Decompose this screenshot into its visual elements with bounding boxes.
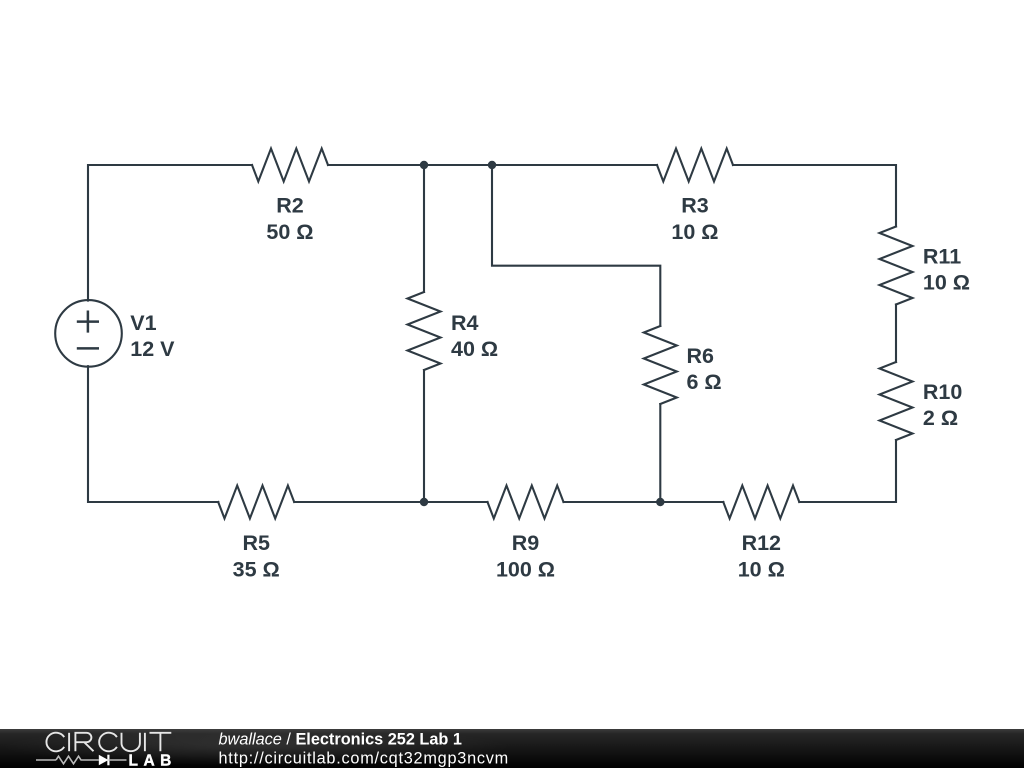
svg-text:10 Ω: 10 Ω — [738, 557, 785, 581]
node B junction dot — [488, 161, 496, 169]
svg-text:10 Ω: 10 Ω — [923, 271, 970, 295]
svg-text:40 Ω: 40 Ω — [451, 337, 498, 361]
wire R9 to R5 — [294, 501, 487, 503]
V1 plus sign — [77, 311, 99, 333]
svg-text:bwallace / Electronics 252 Lab: bwallace / Electronics 252 Lab 1 — [219, 730, 462, 748]
node D junction dot — [656, 498, 664, 506]
resistor R9 — [488, 486, 564, 519]
CircuitLab logo word CIRCUIT (geometric) — [46, 733, 171, 752]
wire bottom-left corner up to V1 bottom — [88, 366, 218, 502]
resistor R6 — [644, 326, 677, 404]
svg-text:2 Ω: 2 Ω — [923, 406, 958, 430]
wire R4 down to node C — [423, 370, 425, 502]
svg-text:R10: R10 — [923, 380, 962, 404]
resistor R4 — [408, 292, 441, 370]
wire node A down to R4 — [423, 165, 425, 292]
svg-text:50 Ω: 50 Ω — [266, 220, 313, 244]
svg-text:6 Ω: 6 Ω — [687, 370, 722, 394]
wire top-middle: R2 to R3 (through nodes) — [328, 164, 657, 166]
footer bar — [0, 729, 1024, 768]
svg-text:R12: R12 — [742, 531, 781, 555]
resistor R2 — [252, 149, 328, 182]
wire top-right corner down to R11 — [733, 165, 896, 227]
node A junction dot — [420, 161, 428, 169]
svg-text:V1: V1 — [130, 311, 156, 335]
logo mini diode — [99, 755, 109, 766]
svg-text:R2: R2 — [276, 194, 304, 218]
svg-text:10 Ω: 10 Ω — [671, 220, 718, 244]
wire node B down and right to R6 — [492, 165, 660, 326]
V1 minus sign — [77, 347, 99, 350]
svg-text:12 V: 12 V — [130, 337, 175, 361]
svg-text:R5: R5 — [242, 531, 270, 555]
svg-text:R6: R6 — [687, 344, 715, 368]
wire top-left: V1 top to R2 — [88, 165, 252, 301]
resistor R11 — [880, 227, 913, 305]
wire R12 to node D — [564, 501, 724, 503]
wire R6 down to node D — [659, 404, 661, 502]
voltage source V1 circle — [55, 300, 122, 367]
svg-text:100 Ω: 100 Ω — [496, 557, 555, 581]
resistor R5 — [218, 486, 294, 519]
svg-text:R4: R4 — [451, 311, 479, 335]
logo mini-circuit wire — [36, 759, 56, 761]
node C junction dot — [420, 498, 428, 506]
svg-text:R3: R3 — [681, 194, 709, 218]
logo mini wire right — [108, 759, 126, 761]
wire right-bottom corner to R12 — [799, 440, 896, 502]
svg-text:R9: R9 — [512, 531, 540, 555]
resistor R10 — [880, 362, 913, 440]
resistor R3 — [657, 149, 733, 182]
logo mini resistor — [56, 756, 99, 764]
resistor R12 — [723, 486, 799, 519]
svg-text:R11: R11 — [923, 245, 961, 269]
wire between R11 and R10 — [895, 305, 897, 363]
svg-text:http://circuitlab.com/cqt32mgp: http://circuitlab.com/cqt32mgp3ncvm — [219, 749, 509, 767]
svg-text:35 Ω: 35 Ω — [233, 557, 280, 581]
svg-text:LAB: LAB — [129, 752, 177, 768]
